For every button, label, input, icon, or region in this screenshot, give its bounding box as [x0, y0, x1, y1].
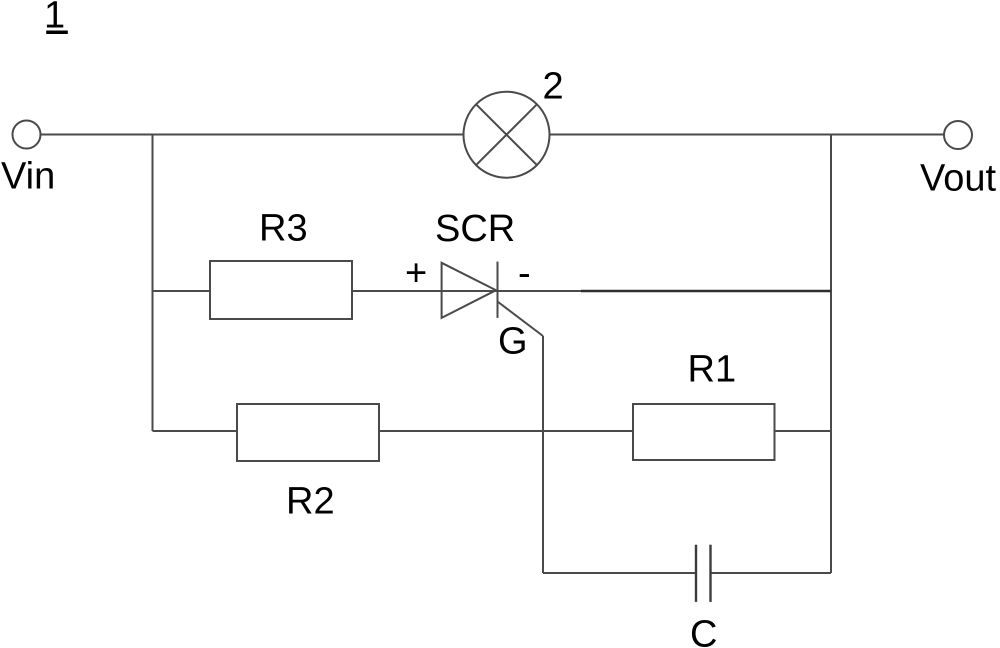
svg-text:R3: R3	[259, 208, 308, 250]
svg-text:Vout: Vout	[920, 158, 997, 200]
wire SCR branch	[352, 290, 581, 292]
wire bottom left (to capacitor)	[543, 572, 696, 574]
wire top-left (Vin to lamp)	[41, 134, 464, 136]
svg-text:G: G	[498, 321, 528, 363]
svg-text:R2: R2	[286, 481, 335, 523]
wire left vertical bus	[152, 135, 154, 432]
svg-text:Vin: Vin	[1, 156, 55, 198]
wire R1 right	[775, 430, 832, 432]
wire gate vertical	[542, 336, 544, 573]
wire top-right (lamp to Vout)	[550, 134, 945, 136]
resistor R3	[210, 261, 352, 319]
label 1 underline	[46, 31, 68, 35]
lamp 2 circle	[464, 92, 550, 178]
thyristor SCR cathode bar	[497, 262, 499, 318]
wire gate diagonal	[498, 302, 544, 337]
wire R3 branch left	[153, 290, 211, 292]
resistor R1	[633, 404, 775, 460]
wire R2 to R1	[379, 430, 633, 432]
svg-text:-: -	[518, 253, 531, 295]
svg-text:R1: R1	[688, 349, 737, 391]
lamp 2 cross	[476, 104, 537, 165]
svg-text:2: 2	[543, 66, 564, 108]
terminal Vin	[13, 121, 41, 149]
wire right vertical bus	[830, 135, 832, 574]
capacitor C left plate	[695, 545, 697, 602]
wire bottom right (capacitor to right bus)	[711, 572, 832, 574]
wire R2 branch left	[153, 430, 238, 432]
svg-text:SCR: SCR	[435, 208, 515, 250]
wire SCR cathode to right bus (darker segment)	[581, 290, 831, 293]
svg-text:+: +	[405, 253, 427, 295]
thyristor SCR triangle	[442, 263, 496, 318]
terminal Vout	[944, 121, 972, 149]
capacitor C right plate	[709, 545, 711, 602]
svg-text:C: C	[690, 614, 717, 648]
resistor R2	[237, 404, 379, 461]
